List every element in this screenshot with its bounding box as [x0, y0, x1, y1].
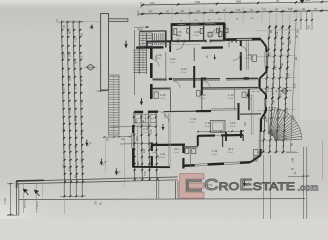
right chain bottom ticks — [286, 151, 298, 153]
thin drop lines below ladder — [104, 137, 106, 173]
right chain extension lines — [257, 29, 296, 32]
left chain bottom end — [63, 184, 65, 196]
interior horizontal wall y47.5 — [136, 46, 163, 49]
winder stair fan — [268, 107, 269, 134]
top room fixtures — [174, 29, 177, 35]
elevator shaft rectangle — [101, 14, 109, 91]
top-right corner dark triangle — [300, 0, 304, 4]
stair upper flight treads — [140, 32, 153, 34]
right lower vertical pair B — [302, 147, 304, 219]
top outer wall solid — [171, 22, 225, 26]
mid chain cross lines — [110, 125, 157, 128]
watermark logo dark C glyph — [186, 179, 202, 192]
upper rooms vertical partitions — [189, 26, 191, 41]
ladder bottom dim line — [104, 136, 131, 139]
corridor jamb segments — [169, 78, 172, 80]
right chain verticals — [263, 25, 270, 153]
shaft flag rectangle — [109, 19, 128, 22]
terrace top double line — [16, 177, 177, 181]
corner room inner wall — [219, 26, 221, 39]
mid chain verticals — [134, 112, 135, 181]
top dimension chain line 1 — [138, 11, 328, 14]
terrace bottom tick line — [7, 214, 19, 216]
dashed level line with diamond — [252, 90, 292, 93]
bottom-right chamfer — [250, 156, 260, 163]
bay2 apex wall — [265, 95, 267, 99]
fixtures row under y111 wall — [135, 114, 157, 123]
stair block left wall — [138, 33, 140, 75]
watermark logo red E glyph — [180, 174, 319, 199]
mid band fixtures — [154, 92, 158, 98]
thick vertical x226 lower — [225, 132, 227, 141]
terrace inner arrows with labels — [24, 189, 40, 196]
terrace vertical pair x176 — [175, 181, 177, 199]
horizontal wall y135.5 — [198, 134, 215, 137]
interior horizontal wall y41 — [146, 40, 172, 42]
stair top wall line — [140, 30, 167, 33]
terrace inner thin verticals — [22, 184, 24, 213]
terrace far-left dimension line — [9, 184, 11, 215]
left wall lower thick with window — [132, 125, 134, 133]
terrace left vertical pair — [15, 181, 17, 215]
elevation arrows in plan — [124, 41, 127, 49]
vertical x197.5 — [197, 136, 199, 147]
corner faint extension — [226, 24, 228, 40]
vertical thin pair x247 — [246, 41, 248, 71]
top wall window slits — [178, 23, 184, 25]
window sill ticks above top wall — [176, 22, 178, 27]
thick vertical x241 lower — [240, 130, 242, 138]
left chain top line — [58, 21, 84, 24]
thick vertical x238.5 — [238, 103, 240, 120]
right lower tick row — [288, 175, 310, 178]
corridor wall lower y88 — [153, 87, 171, 89]
ladder center rail — [113, 75, 115, 135]
right chain top connectors — [269, 13, 272, 25]
bottom-left room bottom wall — [132, 166, 170, 168]
corridor wall upper y79 — [153, 78, 168, 80]
terrace corner thick — [16, 179, 44, 182]
corner room wc fixtures — [219, 32, 222, 37]
small room walls above terrace x183-198 — [183, 146, 197, 148]
upper mid vertical x166 below corridor — [165, 52, 167, 79]
top-right corner vertical wall x224 — [223, 24, 226, 41]
left outer wall thin upper — [134, 30, 136, 95]
vertical wall x194 upper-mid — [193, 66, 195, 88]
bay1 lower chamfer — [260, 72, 267, 79]
vertical partition x240 lower — [240, 41, 242, 47]
right chain sparse ticks — [275, 32, 277, 34]
thin wall y108.8 right part — [211, 108, 237, 110]
stair right flight vertical treads — [152, 33, 154, 45]
bay room inner pair — [251, 95, 253, 135]
bottom outer wall segments — [183, 164, 195, 167]
top chain ticks — [141, 13, 143, 15]
left chain extension line top — [58, 21, 100, 24]
north-ish small mark — [90, 25, 94, 29]
bottom wall window thin lines — [195, 163, 208, 166]
door jamb stubs y41 — [177, 40, 179, 43]
stub below y41 wall x170 — [169, 41, 171, 52]
bottom mid room inner lines — [168, 113, 170, 167]
stub x147 between walls — [146, 41, 148, 47]
left diamond level marker — [87, 64, 95, 70]
bay1 apex wall — [265, 47, 267, 53]
mid band partitions — [170, 90, 172, 112]
shaft mid tick — [97, 90, 110, 93]
top chain drop extension lines — [171, 7, 173, 23]
bathtub fixture — [211, 120, 226, 132]
wall between bays — [258, 79, 260, 89]
stair landing walls — [151, 33, 153, 48]
left dimension chain verticals — [62, 21, 65, 185]
small room fixtures near bottom — [185, 149, 189, 154]
ladder rungs — [109, 76, 119, 78]
exterior ladder stair strip — [109, 75, 119, 135]
right lower vertical pair A — [263, 155, 265, 219]
horizontal wall y144.8 — [152, 144, 185, 147]
stair lower flight treads — [133, 49, 146, 51]
top-left corner stub — [171, 24, 173, 42]
stair arrow line — [142, 34, 144, 71]
stair mid rail stub — [145, 33, 147, 46]
left chain tick rows — [61, 21, 63, 23]
dim ticks above wall y135 — [198, 130, 243, 133]
top dimension chain line 2 — [141, 2, 328, 5]
right outer wall lower — [260, 119, 262, 132]
terrace vertical pair mid x157 — [156, 177, 158, 199]
bay fixture marks — [252, 55, 257, 62]
top chain left end vertical — [137, 11, 139, 17]
vertical wall x183.5 lower — [182, 145, 184, 153]
corner chamfer to bay1 — [261, 40, 266, 47]
door arcs — [159, 112, 169, 122]
right chain tick rows — [268, 26, 270, 28]
central thick vertical wall x151 — [150, 48, 153, 60]
room wall vertical x152 lower — [151, 143, 153, 152]
stair lower rail — [146, 49, 148, 74]
mid chain tick rows — [133, 116, 135, 118]
partition x222 lower rooms — [222, 135, 224, 147]
top-right verticals — [300, 12, 302, 30]
horizontal wall y111.5 — [134, 111, 143, 113]
upper-right top wall B double — [225, 37, 261, 40]
bay2 lower chamfer — [261, 111, 266, 119]
corridor inner thin line — [154, 43, 200, 46]
long bottom horizontal line — [19, 198, 305, 201]
thin inner lines bottom-left room — [137, 125, 139, 166]
bay2 upper chamfer — [260, 88, 267, 94]
vertical x243 lower — [242, 135, 244, 141]
wall y114 to bay — [240, 113, 261, 115]
